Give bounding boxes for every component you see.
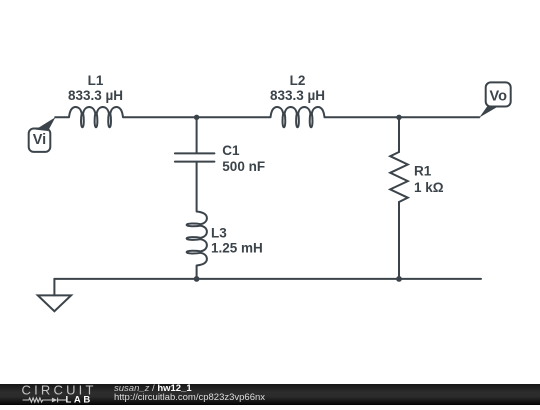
svg-text:833.3 µH: 833.3 µH bbox=[270, 88, 325, 103]
svg-text:Vo: Vo bbox=[489, 89, 507, 105]
svg-text:L1: L1 bbox=[88, 73, 104, 88]
svg-text:LAB: LAB bbox=[66, 395, 93, 405]
svg-text:500 nF: 500 nF bbox=[222, 159, 265, 174]
svg-text:L2: L2 bbox=[290, 73, 306, 88]
svg-text:Vi: Vi bbox=[33, 132, 46, 148]
svg-text:C1: C1 bbox=[222, 143, 240, 158]
svg-text:L3: L3 bbox=[211, 226, 227, 241]
svg-text:833.3 µH: 833.3 µH bbox=[68, 88, 123, 103]
svg-text:1.25 mH: 1.25 mH bbox=[211, 241, 263, 256]
svg-text:R1: R1 bbox=[414, 164, 432, 179]
svg-text:1 kΩ: 1 kΩ bbox=[414, 180, 444, 195]
